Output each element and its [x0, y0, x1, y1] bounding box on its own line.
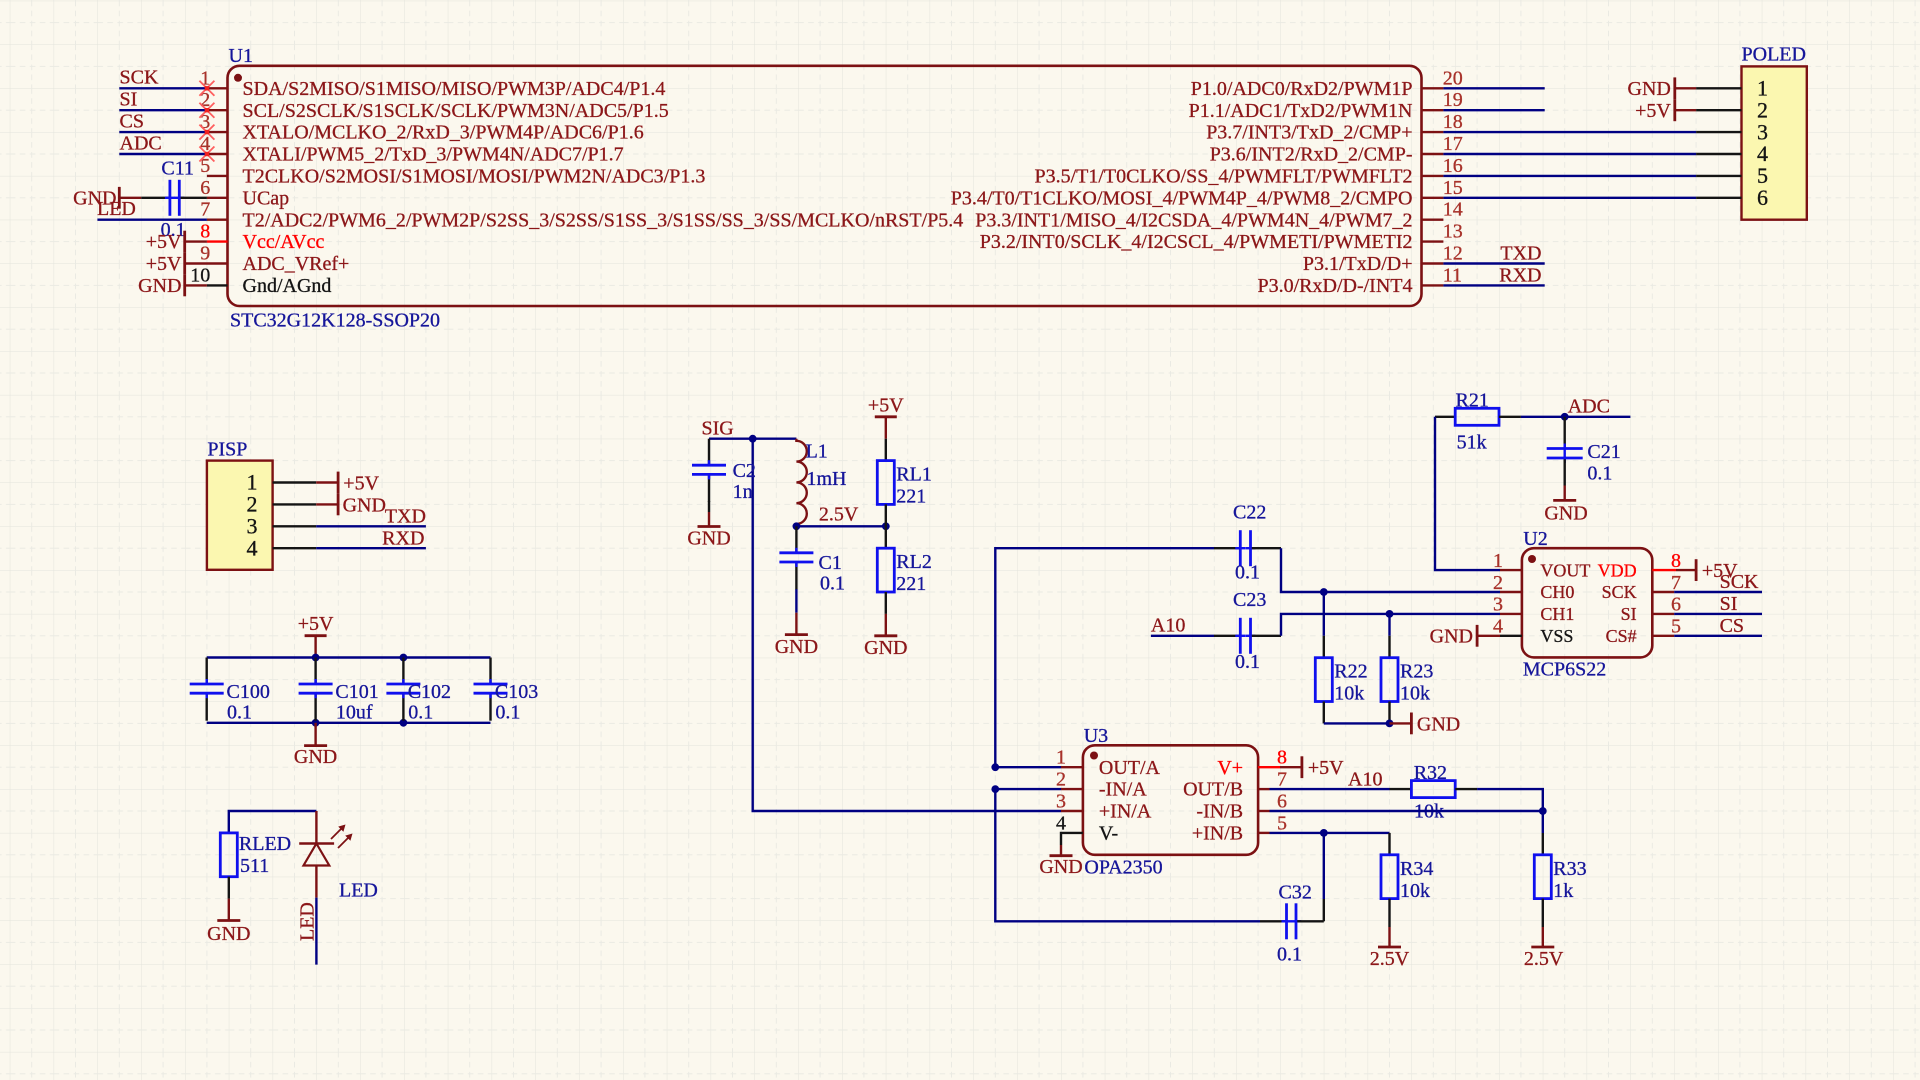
svg-text:8: 8	[200, 221, 210, 243]
svg-text:10: 10	[190, 264, 210, 286]
PISP pin 1 number	[247, 470, 258, 495]
U1 pin 7 number	[200, 199, 210, 221]
U2 pin 6 stub	[1652, 613, 1674, 615]
wire net 2.5V horizontal	[796, 525, 885, 527]
svg-text:GND: GND	[1417, 713, 1460, 735]
svg-text:P3.4/T0/T1CLKO/MOSI_4/PWM4P_4/: P3.4/T0/T1CLKO/MOSI_4/PWM4P_4/PWM8_2/CMP…	[951, 187, 1413, 209]
svg-text:CH0: CH0	[1540, 582, 1574, 602]
power port +5V at U1 pin 8	[146, 231, 207, 254]
U1 pin 18 stub	[1422, 131, 1444, 133]
U1 pin 20 number	[1443, 67, 1463, 89]
svg-text:SDA/S2MISO/S1MISO/MISO/PWM3P/A: SDA/S2MISO/S1MISO/MISO/PWM3P/ADC4/P1.4	[243, 78, 666, 100]
wire net SI to U1 pin 2	[119, 109, 207, 111]
svg-text:XTALO/MCLKO_2/RxD_3/PWM4P/ADC6: XTALO/MCLKO_2/RxD_3/PWM4P/ADC6/P1.6	[243, 122, 644, 144]
U2 pin 3 name CH1	[1540, 604, 1574, 624]
ground GND below C21	[1544, 486, 1587, 525]
svg-text:2.5V: 2.5V	[1524, 948, 1564, 970]
ground GND below C1	[775, 613, 818, 658]
junction -IN/B at R33	[1539, 807, 1547, 815]
junction SIG at x752.7	[749, 435, 757, 443]
svg-text:U2: U2	[1523, 528, 1547, 550]
connector PISP body	[207, 438, 273, 570]
U2 pin 7 name SCK	[1602, 582, 1637, 602]
svg-text:Gnd/AGnd: Gnd/AGnd	[243, 275, 332, 297]
U1 pin 16 name P3.5/T1/T0CLKO/SS_4/PWMFLT/PWMFLT2	[1034, 166, 1412, 188]
power port +5V at PISP pin 1	[316, 472, 379, 495]
U3 pin 2 number	[1056, 769, 1066, 791]
net label SIG	[702, 417, 734, 439]
svg-text:C102: C102	[408, 681, 451, 703]
svg-text:C21: C21	[1587, 441, 1620, 463]
U1 pin 5 stub	[207, 175, 228, 177]
resistor R21 51k	[1435, 389, 1521, 453]
U1 pin 20 stub	[1422, 87, 1444, 89]
U1 pin 1 name SDA/S2MISO/S1MISO/MISO/PWM3P/ADC4/P1.4	[243, 78, 666, 100]
POLED pin 2 stub	[1696, 109, 1741, 111]
U1 pin 6 number	[200, 177, 210, 199]
svg-text:R23: R23	[1400, 661, 1433, 683]
svg-text:U1: U1	[229, 45, 253, 67]
svg-text:10k: 10k	[1334, 683, 1364, 705]
U1 pin 2 number	[200, 89, 210, 111]
svg-text:221: 221	[896, 573, 926, 595]
svg-text:GND: GND	[207, 923, 250, 945]
svg-text:1: 1	[1056, 747, 1066, 769]
svg-text:0.1: 0.1	[1277, 943, 1302, 965]
net label ADC	[120, 132, 162, 154]
svg-text:GND: GND	[864, 637, 907, 659]
net label RXD at PISP	[382, 528, 424, 550]
svg-text:P3.7/INT3/TxD_2/CMP+: P3.7/INT3/TxD_2/CMP+	[1206, 122, 1412, 144]
svg-text:SCK: SCK	[1602, 582, 1637, 602]
svg-text:LED: LED	[297, 902, 319, 941]
junction ADC above C21	[1561, 413, 1569, 421]
svg-text:UCap: UCap	[243, 187, 290, 209]
svg-text:PISP: PISP	[207, 438, 247, 460]
power port +5V at POLED pin 2	[1635, 99, 1696, 122]
svg-text:20: 20	[1443, 67, 1463, 89]
svg-text:+5V: +5V	[146, 231, 182, 253]
svg-text:2.5V: 2.5V	[819, 503, 859, 525]
U1 pin 16 number	[1443, 155, 1463, 177]
U3 pin 5 number	[1277, 812, 1287, 834]
PISP pin 3 number	[247, 514, 258, 539]
U2 pin 2 name CH0	[1540, 582, 1574, 602]
U3 pin 7 number	[1277, 769, 1287, 791]
U1 pin 11 stub	[1422, 284, 1444, 286]
svg-text:12: 12	[1443, 243, 1463, 265]
U1 pin 15 stub	[1422, 197, 1444, 199]
svg-text:+5V: +5V	[343, 472, 379, 494]
wire U3 -IN/A to feedback node	[995, 788, 1061, 790]
U1 pin 11 name P3.0/RxD/D-/INT4	[1258, 275, 1413, 297]
svg-text:4: 4	[247, 535, 258, 560]
svg-text:GND: GND	[775, 636, 818, 658]
PISP pin 3 stub	[273, 525, 317, 527]
U1 pin 20 name P1.0/ADC0/RxD2/PWM1P	[1191, 78, 1413, 100]
U1 pin 11 number	[1443, 264, 1462, 286]
svg-text:OUT/A: OUT/A	[1099, 757, 1161, 779]
U3 pin 4 V- stub	[1061, 833, 1083, 845]
svg-text:A10: A10	[1348, 769, 1382, 791]
ground GND at U2 pin 4 VSS	[1430, 625, 1500, 648]
svg-text:R21: R21	[1456, 389, 1489, 411]
svg-text:P3.5/T1/T0CLKO/SS_4/PWMFLT/PWM: P3.5/T1/T0CLKO/SS_4/PWMFLT/PWMFLT2	[1034, 166, 1412, 188]
U1 pin 4 stub	[207, 153, 228, 155]
svg-text:GND: GND	[1628, 78, 1671, 100]
capacitor C103 0.1	[474, 658, 539, 724]
svg-text:6: 6	[1671, 594, 1681, 616]
svg-text:TXD: TXD	[385, 506, 426, 528]
U1 pin 8 number	[200, 221, 210, 243]
svg-text:R34: R34	[1400, 858, 1433, 880]
U1 pin 4 name XTALI/PWM5_2/TxD_3/PWM4N/ADC7/P1.7	[243, 144, 624, 166]
svg-text:10k: 10k	[1400, 683, 1430, 705]
junction top rail at C102	[400, 654, 408, 662]
inductor L1 1mH	[796, 439, 846, 527]
svg-text:C32: C32	[1279, 882, 1312, 904]
PISP pin 1 stub	[273, 481, 317, 483]
U1 pin 3 name XTALO/MCLKO_2/RxD_3/PWM4P/ADC6/P1.6	[243, 122, 644, 144]
wire R32 output to R33 top	[1477, 789, 1543, 833]
svg-text:SI: SI	[1720, 593, 1738, 615]
U1 pin 16 stub	[1422, 175, 1444, 177]
U1 pin 15 name P3.4/T0/T1CLKO/MOSI_4/PWM4P_4/PWM8_2/CMPO	[951, 187, 1413, 209]
svg-text:19: 19	[1443, 89, 1463, 111]
ground GND at POLED pin 1	[1628, 77, 1697, 100]
U1 pin 19 stub	[1422, 109, 1444, 111]
U1 pin 13 stub	[1422, 240, 1444, 242]
resistor RL2 221	[877, 526, 932, 614]
U3 pin 8 name V+	[1217, 757, 1243, 779]
svg-text:17: 17	[1443, 133, 1463, 155]
U1 pin 6 name UCap	[243, 187, 290, 209]
svg-text:C1: C1	[819, 552, 842, 574]
wire net TXD from PISP pin 3	[316, 525, 426, 527]
capacitor C1 0.1	[779, 526, 845, 594]
svg-text:1n: 1n	[733, 481, 753, 503]
svg-text:TXD: TXD	[1500, 242, 1541, 264]
wire feedback node down to C32	[995, 789, 1260, 921]
POLED pin 4 number	[1757, 141, 1768, 166]
POLED pin 3 stub	[1696, 131, 1741, 133]
IC U2 MCP6S22 body	[1522, 528, 1652, 680]
svg-text:13: 13	[1443, 221, 1463, 243]
U1 pin 15 number	[1443, 177, 1463, 199]
junction +IN/B at C32 branch	[1320, 829, 1328, 837]
wire R21 to ADC junction	[1521, 416, 1565, 418]
no-ERC marker U1 pin 3	[199, 125, 214, 140]
U1 pin 12 name P3.1/TxD/D+	[1303, 253, 1413, 275]
resistor R22 10k	[1315, 592, 1367, 723]
U3 pin 7 stub OUT/B	[1258, 788, 1269, 790]
wire GND rail bottom	[207, 722, 491, 724]
U2 pin 3 number	[1493, 594, 1503, 616]
svg-text:GND: GND	[138, 275, 181, 297]
POLED pin 6 stub	[1696, 197, 1741, 199]
U1 pin 14 name P3.3/INT1/MISO_4/I2CSDA_4/PWM4N_4/PWM7_2	[975, 209, 1412, 231]
svg-text:+IN/B: +IN/B	[1192, 823, 1243, 845]
svg-text:MCP6S22: MCP6S22	[1523, 658, 1606, 680]
svg-text:7: 7	[1277, 769, 1287, 791]
svg-text:VOUT: VOUT	[1540, 560, 1590, 580]
U3 pin 4 name V-	[1099, 823, 1118, 845]
U3 pin 1 stub	[1061, 766, 1083, 768]
wire net A10 to C23	[1151, 635, 1214, 637]
svg-text:+5V: +5V	[146, 253, 182, 275]
U3 pin 3 number	[1056, 791, 1066, 813]
ground GND right of R23	[1390, 713, 1461, 736]
svg-text:OPA2350: OPA2350	[1084, 857, 1162, 879]
U2 pin 2 number	[1493, 572, 1503, 594]
U1 pin 1 stub	[207, 87, 228, 89]
svg-text:VDD: VDD	[1598, 560, 1637, 580]
ground GND at PISP pin 2	[316, 494, 386, 517]
U3 pin 5 name +IN/B	[1192, 823, 1243, 845]
svg-text:C100: C100	[227, 681, 270, 703]
svg-text:T2CLKO/S2MOSI/S1MOSI/MOSI/PWM2: T2CLKO/S2MOSI/S1MOSI/MOSI/PWM2N/ADC3/P1.…	[243, 166, 706, 188]
U2 pin 3 stub	[1500, 613, 1522, 615]
net label RXD	[1499, 264, 1541, 286]
U1 pin 5 name T2CLKO/S2MOSI/S1MOSI/MOSI/PWM2N/ADC3/P1.3	[243, 166, 706, 188]
capacitor C100 0.1	[190, 658, 270, 724]
wire from U1 pin 16 to POLED pin 5	[1443, 175, 1696, 177]
ground GND below RL2	[864, 614, 907, 659]
ground GND below C2	[687, 501, 730, 550]
svg-text:CS: CS	[120, 111, 144, 133]
U2 pin 6 number	[1671, 594, 1681, 616]
svg-text:L1: L1	[806, 441, 828, 463]
U3 pin 3 stub	[1061, 810, 1083, 812]
svg-text:GND: GND	[687, 528, 730, 550]
svg-text:0.1: 0.1	[227, 702, 252, 724]
U1 pin 17 stub	[1422, 153, 1444, 155]
net label TXD	[1500, 242, 1541, 264]
svg-text:4: 4	[1056, 812, 1066, 834]
POLED pin 3 number	[1757, 119, 1768, 144]
svg-text:+5V: +5V	[1635, 100, 1671, 122]
svg-text:1: 1	[1493, 550, 1503, 572]
svg-text:P1.1/ADC1/TxD2/PWM1N: P1.1/ADC1/TxD2/PWM1N	[1189, 100, 1413, 122]
U3 pin 1 name OUT/A	[1099, 757, 1161, 779]
svg-text:221: 221	[896, 486, 926, 508]
U2 pin 1 number	[1493, 550, 1503, 572]
svg-text:CS#: CS#	[1606, 626, 1637, 646]
U1 pin 6 stub	[207, 197, 228, 199]
ground GND at U3 pin 4	[1039, 845, 1082, 878]
U1 pin 12 number	[1443, 243, 1463, 265]
PISP pin 4 number	[247, 535, 258, 560]
wire U3 OUT/A to feedback node	[995, 766, 1061, 768]
U2 pin 7 number	[1671, 572, 1681, 594]
svg-text:P1.0/ADC0/RxD2/PWM1P: P1.0/ADC0/RxD2/PWM1P	[1191, 78, 1413, 100]
svg-text:RL2: RL2	[896, 551, 932, 573]
U1 pin 4 number	[200, 133, 210, 155]
svg-text:0.1: 0.1	[1587, 463, 1612, 485]
svg-text:0.1: 0.1	[820, 573, 845, 595]
wire from U1 pin 15 to POLED pin 6	[1443, 197, 1696, 199]
U2 pin 8 name VDD	[1598, 560, 1637, 580]
wire net SIG horizontal	[709, 438, 796, 440]
U1 pin 10 name Gnd/AGnd	[243, 275, 332, 297]
net label LED vertical	[297, 902, 319, 941]
ground GND below RLED	[207, 899, 250, 946]
no-ERC marker U1 pin 4	[199, 147, 214, 162]
svg-text:-IN/B: -IN/B	[1196, 801, 1243, 823]
U3 pin 5 stub +IN/B	[1258, 832, 1269, 834]
svg-text:GND: GND	[343, 494, 386, 516]
U3 pin 6 stub -IN/B	[1258, 810, 1269, 812]
PISP pin 4 stub	[273, 547, 317, 549]
U1 pin 9 stub	[185, 262, 228, 264]
POLED pin 1 stub	[1696, 87, 1741, 89]
svg-text:P3.3/INT1/MISO_4/I2CSDA_4/PWM4: P3.3/INT1/MISO_4/I2CSDA_4/PWM4N_4/PWM7_2	[975, 209, 1412, 231]
svg-text:2: 2	[1056, 769, 1066, 791]
U2 pin 8 stub (VDD)	[1652, 569, 1676, 571]
U3 pin 6 number	[1277, 791, 1287, 813]
svg-text:V-: V-	[1099, 823, 1118, 845]
U3 pin 8 number	[1277, 747, 1287, 769]
svg-text:CS: CS	[1720, 615, 1744, 637]
LED diode LED	[299, 811, 378, 901]
U1 pin 13 number	[1443, 221, 1463, 243]
U2 pin 5 name CS#	[1606, 626, 1637, 646]
svg-text:14: 14	[1443, 199, 1463, 221]
connector POLED body	[1742, 44, 1807, 220]
U3 pin 2 name -IN/A	[1099, 779, 1147, 801]
svg-text:VSS: VSS	[1540, 626, 1573, 646]
junction -IN/A	[991, 785, 999, 793]
wire net RXD from PISP pin 4	[316, 547, 426, 549]
U1 pin 3 stub	[207, 131, 228, 133]
U2 pin 1 stub	[1500, 569, 1522, 571]
resistor R32 10k	[1390, 762, 1478, 822]
svg-text:STC32G12K128-SSOP20: STC32G12K128-SSOP20	[230, 310, 440, 332]
wire from U1 pin 17 to POLED pin 4	[1443, 153, 1696, 155]
svg-text:CH1: CH1	[1540, 604, 1574, 624]
U1 pin 19 name P1.1/ADC1/TxD2/PWM1N	[1189, 100, 1413, 122]
U1 pin 14 stub	[1422, 218, 1444, 220]
wire net LED to U1 pin 7	[97, 218, 206, 220]
capacitor C21 0.1	[1547, 417, 1621, 486]
power port 2.5V below R34	[1370, 927, 1410, 970]
net label A10 at U3	[1348, 769, 1382, 791]
wire U3 +IN/B to R34	[1270, 832, 1390, 834]
svg-text:XTALI/PWM5_2/TxD_3/PWM4N/ADC7/: XTALI/PWM5_2/TxD_3/PWM4N/ADC7/P1.7	[243, 144, 624, 166]
net label LED	[97, 198, 136, 220]
U2 pin 4 name VSS	[1540, 626, 1573, 646]
svg-text:0.1: 0.1	[1235, 651, 1260, 673]
U1 pin 9 name ADC_VRef+	[243, 253, 350, 275]
svg-text:RLED: RLED	[239, 833, 291, 855]
U1 pin 12 stub	[1422, 262, 1444, 264]
wire net SCK from U2	[1674, 591, 1762, 593]
wire net TXD from U1 pin 12	[1443, 262, 1544, 264]
svg-text:SCK: SCK	[1720, 571, 1759, 593]
capacitor C11 0.1	[141, 158, 207, 242]
U1 pin 19 number	[1443, 89, 1463, 111]
U2 pin 6 name SI	[1621, 604, 1637, 624]
net label SCK	[120, 67, 159, 89]
svg-text:SCL/S2SCLK/S1SCLK/SCLK/PWM3N/A: SCL/S2SCLK/S1SCLK/SCLK/PWM3N/ADC5/P1.5	[243, 100, 669, 122]
wire below C1 to GND	[795, 589, 797, 613]
U1 pin 5 number	[200, 155, 210, 177]
svg-text:+5V: +5V	[868, 394, 904, 416]
svg-text:GND: GND	[1039, 856, 1082, 878]
U3 pin 8 V+ stub	[1258, 766, 1280, 768]
capacitor C2 1n	[692, 439, 756, 503]
net label CS	[120, 111, 144, 133]
capacitor C22 0.1	[1214, 501, 1281, 583]
wire net ADC to U1 pin 4	[119, 153, 207, 155]
svg-text:16: 16	[1443, 155, 1463, 177]
U1 pin 8 name Vcc/AVcc	[243, 231, 325, 253]
svg-text:GND: GND	[294, 746, 337, 768]
resistor R23 10k	[1381, 614, 1433, 724]
U1 pin 18 number	[1443, 111, 1463, 133]
U1 pin 7 name T2/ADC2/PWM6_2/PWM2P/S2SS_3/S2SS/S1SS_3/S1SS/SS_3/SS/MCLKO/nRST/P5.4	[243, 209, 964, 231]
power port 2.5V below R33	[1524, 927, 1564, 970]
svg-text:11: 11	[1443, 264, 1462, 286]
svg-text:5: 5	[1277, 812, 1287, 834]
svg-text:R32: R32	[1414, 762, 1447, 784]
wire from U1 pin 19	[1443, 109, 1544, 111]
resistor RL1 221	[877, 439, 932, 527]
svg-text:ADC: ADC	[1568, 396, 1610, 418]
net label SI at U2	[1720, 593, 1738, 615]
svg-text:C2: C2	[733, 460, 756, 482]
svg-text:C103: C103	[495, 681, 538, 703]
svg-text:SI: SI	[1621, 604, 1637, 624]
U3 pin 6 name -IN/B	[1196, 801, 1243, 823]
wire net CS to U1 pin 3	[119, 131, 207, 133]
svg-text:3: 3	[1056, 791, 1066, 813]
net label SI	[120, 89, 138, 111]
junction 2.5V at L1/C1	[793, 522, 801, 530]
PISP pin 2 number	[247, 492, 258, 517]
wire RLED top to LED anode	[229, 811, 317, 833]
wire R22/R23 bottoms	[1324, 722, 1390, 724]
net label ADC	[1568, 396, 1610, 418]
wire from U1 pin 20	[1443, 87, 1544, 89]
U1 pin 8 stub	[207, 240, 228, 242]
svg-text:+5V: +5V	[298, 613, 334, 635]
svg-text:SIG: SIG	[702, 417, 734, 439]
svg-text:0.1: 0.1	[495, 702, 520, 724]
wire +IN/B node down to C32	[1323, 833, 1325, 921]
power port +5V at U2 pin 8	[1676, 559, 1738, 582]
svg-text:3: 3	[1493, 594, 1503, 616]
svg-text:V+: V+	[1217, 757, 1243, 779]
svg-text:7: 7	[200, 199, 210, 221]
wire R21 left down to U2 pin 1	[1435, 417, 1500, 570]
POLED pin 2 number	[1757, 97, 1768, 122]
U2 pin 5 number	[1671, 616, 1681, 638]
ground GND below capacitor bank	[294, 723, 337, 768]
junction CH0 wire at R22	[1320, 588, 1328, 596]
U2 pin 2 stub	[1500, 591, 1522, 593]
power port +5V above RL1	[868, 394, 904, 438]
svg-text:C11: C11	[161, 158, 194, 180]
svg-text:2: 2	[1493, 572, 1503, 594]
U1 pin 17 number	[1443, 133, 1463, 155]
U2 pin 1 name VOUT	[1540, 560, 1590, 580]
svg-text:P3.2/INT0/SCLK_4/I2CSCL_4/PWME: P3.2/INT0/SCLK_4/I2CSCL_4/PWMETI/PWMETI2	[980, 231, 1413, 253]
svg-text:OUT/B: OUT/B	[1183, 779, 1243, 801]
power port +5V at capacitor bank	[298, 613, 334, 657]
svg-text:C22: C22	[1233, 501, 1266, 523]
svg-text:C101: C101	[335, 681, 378, 703]
